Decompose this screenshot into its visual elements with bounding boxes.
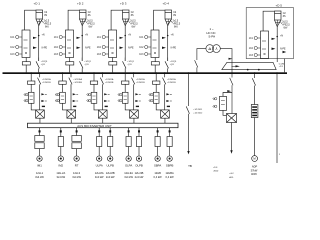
svg-text:OLPB: OLPB: [135, 164, 143, 168]
svg-text:+GC: +GC: [229, 173, 234, 175]
svg-text:12H-1: 12H-1: [36, 171, 44, 175]
svg-text:+D 3: +D 3: [120, 1, 127, 5]
svg-text:IM2: IM2: [58, 164, 63, 168]
svg-text:12H-9A: 12H-9A: [124, 171, 133, 175]
svg-text:ULPA: ULPA: [96, 164, 103, 168]
svg-text:S-PH: S-PH: [208, 34, 215, 38]
svg-text:12H-3: 12H-3: [73, 171, 81, 175]
svg-text:+D 1: +D 1: [34, 1, 41, 5]
svg-text:12HB: 12HB: [154, 171, 161, 175]
svg-text:SBPB: SBPB: [166, 164, 174, 168]
svg-text:3x4 kW: 3x4 kW: [56, 175, 65, 179]
svg-text:0,4 kW: 0,4 kW: [154, 175, 163, 179]
svg-text:12H-8A: 12H-8A: [95, 171, 104, 175]
svg-text:12H-2A: 12H-2A: [56, 171, 65, 175]
svg-text:0,4 kW: 0,4 kW: [166, 175, 175, 179]
svg-text:3x4 kW: 3x4 kW: [95, 175, 104, 179]
svg-text:ADP: ADP: [252, 164, 258, 168]
svg-text:3x4 kW: 3x4 kW: [72, 175, 81, 179]
svg-text:+D 5: +D 5: [276, 3, 283, 7]
svg-text:RT: RT: [75, 164, 79, 168]
svg-text:12H-9B: 12H-9B: [135, 171, 144, 175]
svg-text:+D 2: +D 2: [77, 1, 84, 5]
svg-text:3x4 kW: 3x4 kW: [124, 175, 133, 179]
svg-text:12HBA: 12HBA: [165, 171, 173, 175]
svg-text:400V: 400V: [251, 172, 257, 176]
svg-text:3x4 kW: 3x4 kW: [35, 175, 44, 179]
svg-text:2x4 kW: 2x4 kW: [135, 175, 144, 179]
svg-text:-W10: -W10: [213, 171, 219, 173]
svg-text:ACS 800 INVERTER UNIT: ACS 800 INVERTER UNIT: [77, 124, 112, 128]
svg-text:+1/2:2011: +1/2:2011: [193, 109, 203, 111]
svg-text:OLPA: OLPA: [125, 164, 132, 168]
svg-text:12H-8B: 12H-8B: [106, 171, 115, 175]
svg-text:2x4 kW: 2x4 kW: [106, 175, 115, 179]
svg-text:ULPB: ULPB: [107, 164, 114, 168]
svg-text:IM1: IM1: [37, 164, 42, 168]
svg-text:37kW: 37kW: [251, 168, 258, 172]
svg-text:SBPA: SBPA: [154, 164, 161, 168]
svg-text:+D 4: +D 4: [163, 1, 170, 5]
svg-text:TB: TB: [188, 164, 192, 168]
svg-text:to 2M: to 2M: [279, 62, 284, 65]
svg-text:+1/2:2012: +1/2:2012: [193, 112, 203, 114]
